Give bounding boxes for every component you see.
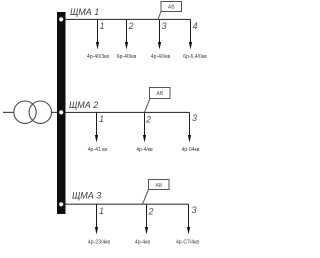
svg-text:2: 2 <box>148 207 154 217</box>
svg-text:1: 1 <box>99 114 104 124</box>
wire branch 1.3 <box>159 19 161 44</box>
svg-text:4р-23/4кв: 4р-23/4кв <box>88 240 111 246</box>
svg-text:4р-41 кв: 4р-41 кв <box>88 147 108 153</box>
svg-text:АВ: АВ <box>168 5 175 11</box>
wire feeder ЩМА 3 <box>66 203 189 205</box>
wire branch 3.2 <box>146 204 148 229</box>
svg-text:3: 3 <box>192 113 197 123</box>
arrow load 3.2 <box>145 227 148 235</box>
wire branch 3.3 <box>188 204 190 229</box>
breaker box AB row 2 <box>150 88 171 99</box>
arrow load 2.1 <box>95 135 98 143</box>
wire transformer secondary lead to busbar <box>52 111 58 113</box>
arrow load 1.1 <box>96 42 99 50</box>
svg-text:6р-6,4/0кв: 6р-6,4/0кв <box>183 54 207 60</box>
busbar <box>57 12 66 214</box>
svg-text:6р-40/кв: 6р-40/кв <box>117 54 137 60</box>
svg-text:4р-4/кв: 4р-4/кв <box>136 147 153 153</box>
breaker box AB row 3 <box>149 180 170 190</box>
breaker box AB row 1 <box>161 2 182 12</box>
svg-text:4р-04кв: 4р-04кв <box>182 147 200 153</box>
svg-text:1: 1 <box>99 206 104 216</box>
node busbar tap 1 <box>59 17 63 21</box>
arrow load 2.3 <box>188 135 191 143</box>
wire feeder ЩМА 2 <box>66 111 190 113</box>
wire feeder ЩМА 1 <box>66 18 191 20</box>
svg-text:2: 2 <box>128 21 134 31</box>
node busbar tap 2 <box>59 110 63 114</box>
wire leader AB row 3 <box>143 190 149 205</box>
svg-text:3: 3 <box>192 205 197 215</box>
wire leader AB row 1 <box>158 12 161 20</box>
wire branch 3.1 <box>96 204 98 229</box>
wire branch 1.1 <box>97 19 99 44</box>
arrow load 1.2 <box>125 42 128 50</box>
svg-text:ЩМА 3: ЩМА 3 <box>72 190 101 200</box>
arrow load 3.1 <box>95 227 98 235</box>
svg-text:2: 2 <box>145 115 151 125</box>
svg-text:4: 4 <box>193 21 198 31</box>
arrow load 1.3 <box>158 42 161 50</box>
wire transformer primary lead <box>3 111 14 113</box>
wire branch 1.4 <box>190 19 192 44</box>
wire branch 2.2 <box>144 112 146 137</box>
svg-text:4р-40/кв: 4р-40/кв <box>151 54 171 60</box>
transformer T1 <box>14 101 52 123</box>
wire branch 1.2 <box>126 19 128 44</box>
wire leader AB row 2 <box>145 99 151 113</box>
svg-text:АВ: АВ <box>156 91 163 97</box>
svg-text:1: 1 <box>100 21 105 31</box>
arrow load 1.4 <box>189 42 192 50</box>
svg-text:АВ: АВ <box>155 183 162 189</box>
arrow load 2.2 <box>143 135 146 143</box>
svg-text:4р-4кв: 4р-4кв <box>135 240 150 246</box>
wire branch 2.1 <box>96 112 98 137</box>
svg-text:3: 3 <box>162 21 167 31</box>
node busbar tap 3 <box>59 202 63 206</box>
wire branch 2.3 <box>189 112 191 137</box>
arrow load 3.3 <box>187 227 190 235</box>
svg-text:4р-40/3кв: 4р-40/3кв <box>87 54 110 60</box>
svg-text:ЩМА 1: ЩМА 1 <box>70 7 99 17</box>
svg-text:ЩМА 2: ЩМА 2 <box>69 100 98 110</box>
svg-text:4р-С7/4кв: 4р-С7/4кв <box>176 240 199 246</box>
